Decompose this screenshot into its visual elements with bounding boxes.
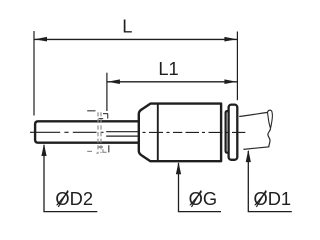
release sleeve neck [226, 111, 229, 153]
body [139, 104, 221, 162]
stem bore line lower [106, 135, 138, 137]
centerline left of body [30, 131, 104, 133]
centerline right of stem [143, 131, 246, 133]
dimension L1 extension line [106, 73, 108, 111]
tube break edge and bottom edge [243, 128, 270, 149]
dimension line L1 [107, 81, 238, 83]
svg-text:ØD2: ØD2 [55, 188, 93, 209]
svg-text:L: L [122, 16, 132, 37]
dimension line L [34, 38, 237, 40]
stem (plug-in shank) [35, 121, 139, 142]
dimension right extension line [236, 32, 238, 101]
centerline merged with bore edge [106, 131, 139, 133]
svg-text:ØD1: ØD1 [254, 188, 292, 209]
hidden socket gray dashes [87, 112, 106, 153]
tube break loop [268, 110, 273, 128]
body collar line [157, 104, 159, 161]
leader OD1 [248, 151, 291, 212]
svg-text:L1: L1 [158, 58, 178, 79]
tube top edge [239, 112, 267, 116]
hidden socket dark dashes [87, 111, 109, 153]
leader OG [179, 163, 222, 212]
release cap [229, 105, 238, 160]
svg-text:ØG: ØG [189, 188, 217, 209]
dimension L left extension line [33, 31, 35, 116]
leader OD2 [44, 145, 97, 212]
